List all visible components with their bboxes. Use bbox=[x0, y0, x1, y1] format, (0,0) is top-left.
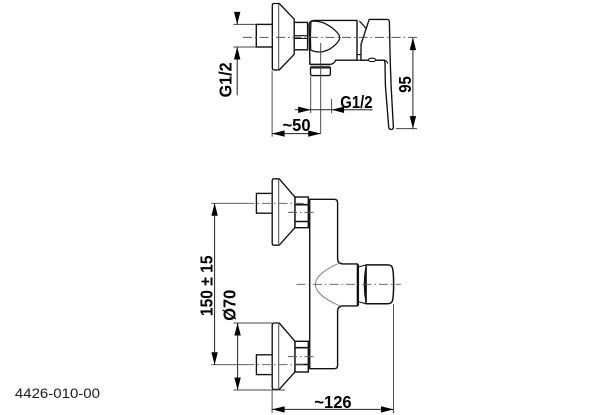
dimension G1/2 inlet: lines + arrows bbox=[234, 12, 240, 95]
joint tick between body and handle bbox=[357, 54, 361, 56]
upper connection centre dash bbox=[288, 211, 316, 213]
handle neck fillet curve bbox=[359, 21, 365, 28]
bonnet collar edges bbox=[359, 265, 366, 304]
cartridge dome (teardrop, side view) bbox=[310, 21, 339, 52]
handle knob (front view, end-on) bbox=[366, 265, 394, 304]
shower outlet taper lines bbox=[310, 66, 330, 68]
valve boss dome (thin line, front view) bbox=[315, 263, 339, 306]
svg-text:95: 95 bbox=[395, 76, 415, 93]
lower pipe centre line bbox=[246, 364, 304, 366]
svg-text:4426-010-00: 4426-010-00 bbox=[15, 386, 101, 401]
outlet centre extension line down to ~50 arrow bbox=[320, 43, 322, 134]
upper hex nut flat lines bbox=[295, 205, 308, 222]
extension line bottom of lever (for 95) bbox=[396, 128, 417, 130]
bonnet ring arcs bbox=[365, 267, 366, 301]
lower escutcheon cone (front view) bbox=[272, 323, 295, 389]
wall supply pipe (side view) bbox=[256, 24, 273, 47]
dimension 95: line + arrows bbox=[410, 38, 416, 129]
svg-text:Ø70: Ø70 bbox=[219, 290, 239, 321]
extension lines pipe top/bottom (for left G1/2) bbox=[233, 24, 256, 47]
extension line wall face below escutcheon (for ~126) bbox=[271, 390, 273, 413]
extension line knob right edge (for ~126) bbox=[393, 304, 395, 413]
handle lever (side view) bbox=[357, 19, 393, 129]
escutcheon face line (side view) bbox=[278, 4, 280, 69]
lower hex nut flat lines bbox=[295, 348, 308, 365]
escutcheon cap shelf line under handle base bbox=[357, 60, 388, 63]
extension line wall face (for ~50) bbox=[271, 71, 273, 137]
svg-text:150 ± 15: 150 ± 15 bbox=[197, 255, 217, 316]
lower escutcheon face line bbox=[278, 324, 280, 388]
screw cover oval on handle base bbox=[368, 58, 376, 61]
svg-text:~50: ~50 bbox=[283, 115, 311, 135]
faucet body column (front view) bbox=[310, 199, 358, 368]
svg-text:G1/2: G1/2 bbox=[340, 92, 372, 112]
upper wall pipe (front view) bbox=[256, 193, 272, 213]
bonnet rear edge line bbox=[357, 264, 359, 305]
union hex nut (side view) bbox=[294, 22, 307, 49]
faucet body (side view) bbox=[309, 20, 357, 64]
dimension ~50: line + arrows bbox=[272, 130, 321, 136]
lower connection centre dash bbox=[288, 356, 316, 358]
upper union hex nut (front view) bbox=[295, 197, 308, 228]
shower outlet threaded collar G1/2 bbox=[311, 68, 331, 76]
lower wall pipe (front view) bbox=[256, 355, 272, 375]
main centre line (front view) bbox=[297, 283, 401, 285]
extension line outlet right edge bbox=[331, 99, 333, 113]
dimension G1/2 outlet: line + arrows bbox=[295, 107, 373, 113]
extension line outlet left edge bbox=[310, 77, 312, 114]
upper escutcheon face line bbox=[278, 180, 280, 244]
svg-text:~126: ~126 bbox=[314, 392, 351, 412]
lower union hex nut (front view) bbox=[295, 341, 308, 372]
extension lines escutcheon top/bottom (for Ø70) bbox=[234, 323, 286, 390]
dimension 150±15: line + arrows bbox=[211, 203, 217, 364]
upper escutcheon cone (front view) bbox=[272, 179, 295, 245]
wall escutcheon cone (side view) bbox=[272, 4, 294, 70]
extension lines pipe centres (for 150±15) bbox=[211, 203, 246, 364]
dimension ~126: line + arrows bbox=[272, 406, 393, 412]
hex nut flat lines (side view) bbox=[294, 36, 307, 39]
svg-text:G1/2: G1/2 bbox=[215, 62, 235, 97]
centre line (side view) bbox=[243, 36, 418, 38]
upper pipe centre line bbox=[246, 202, 304, 204]
dimension Ø70: line + arrows bbox=[234, 323, 240, 390]
